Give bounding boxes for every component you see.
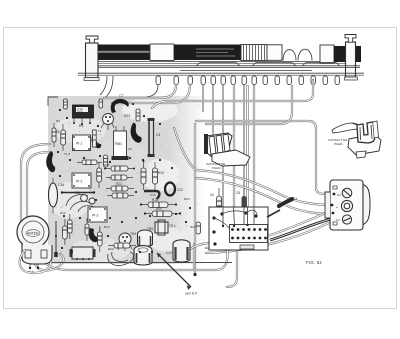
svg-text:T1: T1	[98, 129, 102, 133]
wire: left side inner pair	[27, 152, 50, 230]
svg-text:TS 1: TS 1	[169, 224, 176, 228]
svg-text:TR4: TR4	[130, 232, 136, 236]
resistor R10 (vertical bottom)	[98, 226, 103, 252]
rod bare section	[267, 45, 282, 61]
driver transformer TS1	[155, 220, 176, 235]
loop winding arches	[283, 50, 296, 61]
rod small sleeve right	[320, 45, 334, 63]
resistor R23 (horizontal)	[107, 193, 134, 198]
svg-text:vers H.P.: vers H.P.	[185, 292, 198, 296]
capacitor C18 (bent tubular)	[144, 191, 159, 199]
diode D1	[85, 218, 89, 241]
resistor R62 right of can	[63, 219, 68, 245]
capacitor C13 (hook bottom)	[89, 228, 98, 242]
wire: vertical pair under can C23	[193, 244, 195, 268]
capacitor C6 (vertical pill)	[210, 188, 222, 213]
resistor R19 (vertical)	[141, 160, 146, 190]
left bracket screw	[86, 36, 98, 44]
panel speckle texture	[50, 101, 199, 262]
svg-text:C16: C16	[58, 183, 64, 187]
trimmer PI3	[88, 207, 107, 222]
resistor R9 (small vertical)	[136, 109, 140, 121]
wire: board lower left exit	[186, 243, 212, 252]
rod under-lip lines	[98, 61, 351, 63]
IF transformer RB1	[112, 126, 129, 160]
wire: left side loop to volume can	[21, 144, 50, 249]
resistor R20 (horizontal)	[104, 166, 135, 171]
battery contact right (CONTACT DE PILES)	[332, 121, 381, 158]
svg-text:C2: C2	[337, 193, 341, 197]
right bracket screw	[345, 35, 356, 43]
svg-text:FIG. 52: FIG. 52	[306, 260, 322, 265]
svg-text:PILES: PILES	[212, 166, 221, 170]
capacitor C11 (dark hook)	[92, 134, 102, 148]
svg-text:R22: R22	[116, 182, 122, 186]
wire: speaker pair down from board	[227, 250, 237, 287]
output transformer can below TR5	[134, 246, 152, 266]
svg-text:R10: R10	[104, 225, 110, 229]
wire: can loop lower	[35, 254, 64, 270]
stamped rail tabs	[180, 63, 340, 71]
svg-text:C23: C23	[166, 251, 172, 255]
rod white sleeve	[150, 44, 174, 61]
wire: lug F pair drop to board	[233, 85, 235, 207]
wire: pair from lug down then left into panel	[152, 80, 313, 108]
svg-text:R23: R23	[184, 197, 190, 201]
wire: lug A drop into panel	[104, 85, 176, 98]
panel corner bracket top-left	[48, 97, 58, 106]
wire rod by can	[55, 221, 57, 257]
wire: lug D drop to battery contact	[212, 85, 214, 134]
wire: lug G drop to capacitor C8	[243, 85, 245, 196]
wire: lug C short drop	[202, 85, 204, 112]
wire: second board drop pair	[253, 86, 255, 206]
resistor R18 (horizontal long)	[140, 198, 177, 208]
transistor TR2 with lead loops	[66, 191, 95, 212]
resistor R27 small above board	[196, 222, 200, 234]
resistor R21 (horizontal)	[106, 175, 133, 180]
capacitor C22 (dark oval)	[165, 183, 183, 196]
terminal lug row	[156, 76, 339, 85]
svg-text:C7: C7	[119, 94, 123, 98]
transistor TR1 (top view)	[101, 114, 114, 131]
IF can TR5	[138, 227, 154, 246]
right mounting bracket	[346, 42, 356, 77]
resistor R4 (small vertical, panel top-left)	[64, 99, 68, 109]
tiny reference labels scattered	[56, 119, 196, 251]
resistor R14 (vertical)	[97, 162, 102, 188]
wire: lug E drop behind contact to board	[222, 85, 224, 207]
resistor R25 (horizontal long)	[144, 207, 181, 217]
svg-text:TR5: TR5	[147, 227, 153, 231]
resistor R7 (vertical striped)	[52, 123, 56, 147]
capacitor C14 (dark hook, panel left edge)	[46, 151, 55, 172]
electrolytic can C23	[166, 240, 190, 262]
chassis rail upper	[98, 65, 360, 67]
wire: bar lead drop left 2	[105, 76, 113, 98]
wire: lug B drop into panel	[112, 85, 190, 103]
resistor R26 (vertical)	[153, 162, 165, 190]
svg-text:R18: R18	[152, 198, 158, 202]
svg-text:R3: R3	[56, 119, 60, 123]
wire: panel bottom edge line	[48, 262, 232, 264]
resistor R22 (horizontal)	[106, 182, 134, 191]
battery contact left (CONTACT DE PILES)	[204, 133, 250, 166]
svg-text:C4: C4	[156, 133, 160, 137]
wire: pair panel bottom to connector	[206, 211, 330, 248]
tag board (bottom centre)	[209, 207, 268, 250]
wire: bar lead drop left	[100, 76, 107, 95]
resistor R24 (horizontal bottom)	[108, 243, 136, 248]
antenna rod dark section left	[98, 45, 150, 61]
transistor TR4	[118, 232, 136, 251]
svg-text:RB1: RB1	[115, 142, 122, 146]
resistor R12 (vertical small)	[104, 155, 108, 167]
coil winding ribbed section	[241, 45, 267, 61]
resistor R6 (small vertical, panel top)	[99, 99, 103, 108]
svg-text:C1: C1	[336, 218, 340, 222]
capacitor C9 (dark hook right)	[131, 123, 142, 143]
wire: pair down panel right edge (junction at y121)	[194, 124, 196, 273]
wire: pair under board to connector	[206, 222, 331, 253]
chassis plate (gray panel)	[48, 96, 206, 264]
svg-text:C8: C8	[236, 191, 240, 195]
capacitor C3 (vertical bar)	[93, 130, 97, 147]
coil C5	[73, 105, 94, 125]
svg-text:ANTEN: ANTEN	[27, 232, 39, 236]
connector block (right)	[325, 180, 370, 230]
solder tag dark square	[70, 250, 73, 253]
electrolytic C16 (oval can)	[49, 178, 65, 213]
resistor R13 (vertical)	[68, 214, 73, 239]
wire: heavy lead to connector bottom terminal	[270, 219, 331, 240]
svg-text:C9: C9	[128, 147, 132, 151]
svg-text:R27: R27	[190, 225, 196, 229]
capacitor C8 (dark vertical pill)	[236, 188, 247, 211]
electrolytic C4 (vertical)	[148, 118, 161, 157]
svg-text:C4: C4	[293, 197, 297, 201]
svg-text:R5: R5	[79, 124, 83, 128]
svg-text:C22: C22	[177, 188, 183, 192]
loudspeaker lead loop	[108, 252, 134, 266]
trimmer PI1	[73, 135, 91, 151]
solder joint at wire end	[193, 273, 196, 276]
pointer line to speaker (vers H.P.)	[157, 253, 191, 287]
alignment tool (screwdriver)	[267, 197, 297, 217]
wire: can bottom loop visible	[20, 250, 51, 273]
svg-text:PI 2: PI 2	[76, 180, 82, 184]
svg-text:PI 1: PI 1	[76, 142, 82, 146]
wire: lug 158 drop	[147, 85, 158, 97]
rod dark section right	[334, 46, 361, 62]
volume control can ANTEN (bottom left)	[17, 216, 52, 274]
wire: long pair panel to connector mid2	[196, 178, 330, 214]
capacitor C7 (hook shape)	[111, 99, 129, 113]
bus bar (horizontal)	[61, 191, 95, 193]
svg-text:R26: R26	[158, 171, 164, 175]
volume potentiometer block	[70, 247, 96, 260]
resistor R8 (vertical)	[55, 124, 65, 151]
left mounting bracket	[86, 43, 99, 78]
svg-text:C5: C5	[77, 107, 83, 112]
wire: riser from lug to contact region	[206, 86, 292, 124]
svg-text:C6: C6	[210, 193, 214, 197]
resistor R11 (horizontal small)	[77, 160, 102, 165]
chassis rail lower	[78, 72, 364, 74]
svg-text:C18: C18	[150, 193, 156, 197]
wire: long pair panel to connector mid terminal	[174, 128, 331, 205]
rod dark label section	[174, 45, 241, 61]
svg-text:PILES: PILES	[334, 142, 343, 146]
svg-text:R24: R24	[108, 247, 114, 251]
svg-text:R13: R13	[60, 211, 66, 215]
trimmer PI2	[72, 173, 91, 188]
panel scatter solder dots	[55, 103, 191, 253]
svg-text:R12: R12	[104, 163, 110, 167]
svg-text:R51: R51	[124, 114, 130, 118]
bracket feet	[84, 78, 99, 81]
wire: can loop to bottom rail	[43, 250, 227, 270]
svg-text:R20: R20	[156, 207, 162, 211]
wire: pair to tag board vertical	[246, 86, 248, 206]
svg-text:PI 3: PI 3	[92, 214, 98, 218]
wire: horizontal run y121 to connector riser	[196, 121, 333, 194]
svg-text:T1-2: T1-2	[64, 152, 71, 156]
